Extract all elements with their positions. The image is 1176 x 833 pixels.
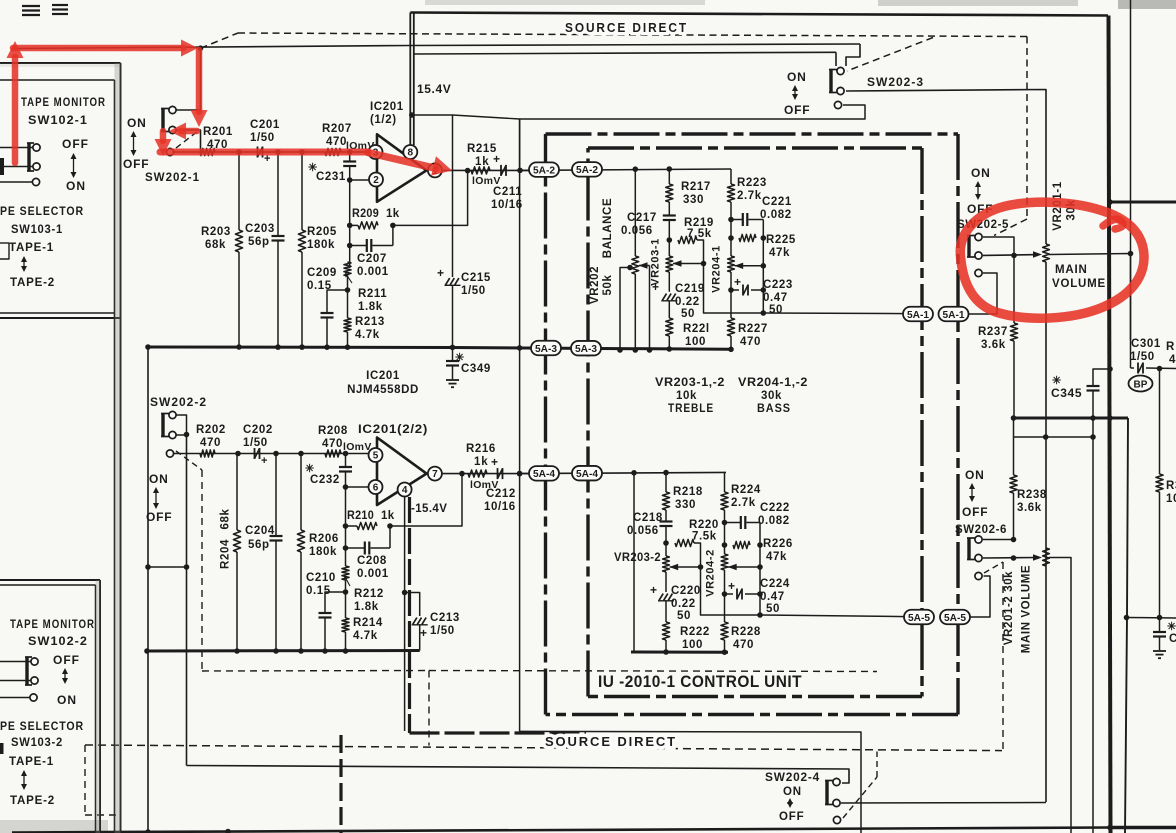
red arrowhead down (into switch)	[191, 110, 208, 127]
wire pin7 output	[442, 473, 533, 475]
potentiometer VR204-1	[728, 220, 735, 291]
svg-text:2.7k: 2.7k	[731, 497, 756, 509]
label C301 value	[1130, 351, 1155, 363]
node bus tone2 right	[722, 649, 728, 655]
svg-text:TAPE-1: TAPE-1	[9, 240, 54, 254]
frame right heavy vertical	[1109, 16, 1111, 833]
label R216	[466, 443, 496, 455]
node R210/C208 right	[387, 523, 393, 529]
label C202	[243, 424, 273, 436]
arrow TAPE-1/TAPE-2 (lower)	[21, 770, 27, 790]
wiper VR201-1	[1033, 251, 1042, 257]
svg-text:SW202-1: SW202-1	[145, 170, 200, 184]
label SW202-3	[867, 75, 924, 89]
svg-text:R217: R217	[681, 181, 711, 193]
wire R211 to R213	[347, 276, 349, 318]
svg-text:1/50: 1/50	[250, 132, 275, 144]
lower tape-unit box inner border	[0, 585, 96, 833]
svg-text:ON: ON	[149, 472, 169, 486]
label VR201-2 30k (rotated)	[1003, 571, 1015, 645]
wiper VR204-2	[728, 564, 760, 570]
node R201/C201	[236, 149, 242, 155]
node top feed / SW202-1 tap	[198, 45, 204, 51]
switch SW102-2	[25, 657, 38, 685]
svg-text:3.6k: 3.6k	[1017, 502, 1042, 514]
capacitor C207	[350, 225, 393, 252]
svg-text:C213: C213	[430, 612, 460, 624]
svg-text:8: 8	[408, 148, 414, 159]
resistor R221	[666, 318, 673, 349]
svg-text:NJM4558DD: NJM4558DD	[347, 384, 419, 396]
svg-text:5A-2: 5A-2	[576, 165, 598, 176]
svg-text:+: +	[261, 455, 268, 467]
node y437 tap	[1043, 434, 1049, 440]
capacitor C220	[650, 583, 674, 622]
label C219 value	[675, 296, 700, 320]
label OFF (SW202-6)	[962, 505, 988, 519]
wire right exit y202	[1110, 201, 1176, 204]
capacitor C232	[339, 454, 352, 488]
upper tape-unit box inner border	[0, 80, 115, 833]
label ON (SW202-3)	[787, 70, 807, 84]
node R205 top	[299, 149, 305, 155]
svg-text:R203: R203	[201, 226, 231, 238]
label C349	[461, 363, 491, 375]
svg-text:0.082: 0.082	[760, 209, 792, 221]
svg-text:7.5k: 7.5k	[687, 228, 712, 240]
svg-text:1.8k: 1.8k	[358, 301, 383, 313]
wire 5A-5 to SW202-6	[970, 576, 990, 617]
svg-text:0.001: 0.001	[357, 266, 389, 278]
label R216 value	[474, 456, 488, 468]
label C231	[316, 171, 346, 183]
resistor R222	[662, 622, 669, 652]
resistor R210	[357, 522, 377, 529]
switch SW202-5	[967, 233, 982, 259]
wire inverting node vertical ch2	[345, 487, 347, 566]
svg-text:SW202-4: SW202-4	[765, 770, 820, 784]
wire mid heavy	[1014, 417, 1129, 420]
label R212 value	[354, 601, 379, 613]
label R205	[307, 226, 337, 238]
label C202 value	[243, 437, 268, 449]
svg-text:+: +	[650, 583, 658, 597]
svg-text:C223: C223	[763, 279, 793, 291]
label R218 value	[675, 499, 696, 511]
resistor R226	[733, 541, 750, 548]
svg-text:OFF: OFF	[53, 653, 80, 667]
wire SW202-3 top feed	[846, 44, 860, 66]
label VR203-1,-2	[655, 377, 725, 389]
svg-text:R223: R223	[737, 177, 767, 189]
svg-text:0.15: 0.15	[306, 585, 331, 597]
capacitor C211	[501, 165, 506, 176]
wire feedback down ch2	[390, 474, 462, 526]
label MAIN VOLUME (rotated)	[1021, 565, 1033, 653]
label C208	[357, 555, 387, 567]
wire SW102-1 throw	[0, 181, 32, 183]
wire common thin vertical	[519, 119, 521, 731]
svg-text:R202: R202	[196, 424, 226, 436]
label SOURCE DIRECT (bottom)	[545, 735, 677, 749]
node output/feedback	[465, 168, 471, 174]
connector 5A-1 b	[939, 307, 969, 322]
svg-text:IC201: IC201	[370, 101, 404, 113]
label R210 1k	[347, 510, 395, 522]
resistor R224	[721, 472, 728, 522]
svg-text:PE SELECTOR: PE SELECTOR	[0, 204, 84, 218]
node main volume wiper join	[1128, 251, 1134, 257]
wiper VR204-1	[734, 263, 763, 269]
label R225 value	[769, 247, 790, 259]
node VR204-1 wiper join	[761, 263, 767, 269]
svg-text:4: 4	[1169, 354, 1176, 366]
svg-text:R208: R208	[318, 425, 348, 437]
label R228	[731, 626, 761, 638]
node y617 left	[1124, 615, 1130, 621]
switch SW102-1	[27, 143, 40, 171]
resistor R220	[675, 539, 694, 546]
node bus2 left end	[144, 648, 150, 654]
label SW202-6	[955, 522, 1007, 536]
label VR201-1 (rotated)	[1052, 181, 1064, 231]
wire tone2 input drop	[633, 473, 635, 652]
svg-text:SW102-2: SW102-2	[28, 634, 88, 648]
label R237	[978, 326, 1008, 338]
wire SW102-1 top contact	[0, 147, 33, 149]
node bus1 VR202 pot	[633, 347, 639, 353]
svg-text:0.47: 0.47	[760, 591, 785, 603]
wire pin2	[350, 179, 369, 181]
svg-text:10k: 10k	[676, 390, 697, 402]
svg-text:6: 6	[373, 483, 379, 494]
capacitor C213	[412, 618, 428, 651]
resistor R237	[1010, 255, 1017, 418]
label R220	[689, 519, 719, 531]
lower tape-unit box outer border	[0, 580, 100, 833]
svg-text:3.6k: 3.6k	[981, 339, 1006, 351]
capacitor C204	[270, 454, 283, 652]
op-amp IC201 1/2 triangle	[377, 134, 427, 202]
pin 7 IC201	[428, 467, 442, 481]
wire SW202-1 top contact to feed	[176, 48, 201, 110]
label R218	[673, 486, 703, 498]
red arrowhead down (to signal)	[155, 139, 172, 156]
node VR202 low	[627, 265, 633, 271]
svg-text:OFF: OFF	[962, 505, 988, 519]
capacitor C218	[660, 522, 673, 544]
wire C345 branch	[1093, 369, 1110, 386]
resistor R207	[325, 148, 341, 155]
red trace channel-1 signal	[160, 149, 368, 156]
label SW102-2	[28, 634, 88, 648]
wire C215 leg	[452, 115, 454, 277]
registration marks top-left	[22, 5, 68, 15]
svg-text:R222: R222	[680, 626, 710, 638]
label R206 value	[309, 546, 337, 558]
label 10mV (ch1 in)	[346, 140, 375, 152]
wire source-direct bypass line	[520, 105, 865, 171]
resistor R228	[721, 594, 728, 652]
resistor R211	[344, 262, 351, 276]
label C209	[307, 267, 337, 279]
selector stub fragment upper	[0, 243, 9, 259]
switch SW202-6	[967, 536, 982, 562]
label C345	[1051, 386, 1082, 400]
label R214 value	[353, 630, 378, 642]
svg-text:TAPE-2: TAPE-2	[10, 275, 55, 289]
connector 5A-1 a	[903, 307, 933, 322]
resistor R206	[297, 454, 304, 652]
label R208 value	[322, 438, 343, 450]
svg-text:R228: R228	[731, 626, 761, 638]
throw contact SW202-1	[166, 148, 173, 155]
label R209 1k	[352, 208, 400, 220]
svg-text:1k: 1k	[381, 510, 395, 522]
throw contact SW202-5	[975, 269, 982, 276]
label C215	[461, 272, 491, 284]
svg-text:R201: R201	[203, 126, 233, 138]
label OFF (SW202-4)	[779, 811, 804, 823]
connector 5A-3 b	[571, 341, 601, 356]
svg-text:1k: 1k	[386, 208, 400, 220]
svg-text:BP: BP	[1134, 380, 1148, 391]
dashed vertical to SW202-5	[1026, 37, 1028, 220]
dashed diagonal to SW202-5	[994, 219, 1027, 236]
wiper VR203-1	[673, 260, 704, 266]
label R237 value	[981, 339, 1006, 351]
wire right exit y617	[1127, 617, 1176, 620]
scan smudge top edge	[425, 0, 705, 5]
node bus2 R214	[343, 648, 349, 654]
label -15.4V	[411, 503, 447, 515]
asterisk C345	[1052, 375, 1062, 387]
svg-text:R211: R211	[358, 288, 387, 300]
label C217 value	[621, 225, 653, 237]
label OFF (SW202-2)	[146, 510, 172, 524]
node bus1 VR202 a	[617, 347, 623, 353]
capacitor C210	[319, 613, 332, 651]
svg-text:R213: R213	[355, 316, 385, 328]
wire switch column vertical	[186, 435, 188, 766]
label C211	[493, 186, 522, 198]
node +15.4V / C215 tap	[409, 112, 415, 118]
svg-text:SW202-3: SW202-3	[867, 75, 924, 89]
throw contact SW102-1	[32, 178, 39, 185]
label C207	[357, 253, 387, 265]
capacitor C222	[725, 516, 761, 529]
dashed throw SW202-1	[176, 131, 198, 148]
svg-text:C345: C345	[1051, 386, 1082, 400]
svg-text:C: C	[1169, 633, 1176, 645]
svg-text:OFF: OFF	[146, 510, 172, 524]
label BASS	[757, 403, 791, 415]
svg-text:C211: C211	[493, 186, 522, 198]
label SW202-5	[957, 217, 1009, 231]
capacitor C-partial	[1153, 618, 1166, 651]
label C201	[250, 119, 280, 131]
node 5A-4 tap1	[631, 470, 637, 476]
label C207 value	[357, 266, 389, 278]
svg-text:R225: R225	[766, 234, 796, 246]
svg-text:5A-4: 5A-4	[533, 469, 555, 480]
label ON (SW202-5)	[971, 166, 991, 180]
label ON (SW202-2)	[149, 472, 169, 486]
label ON (SW202-6)	[965, 468, 985, 482]
wire SW102-1 bottom contact	[0, 166, 33, 168]
wire VR202 lower contact	[620, 268, 630, 351]
arrow OFF/ON (SW102-1)	[71, 153, 77, 178]
wire tone out to 5A-1	[763, 312, 905, 315]
svg-text:0.001: 0.001	[357, 568, 389, 580]
node R225 left	[728, 235, 734, 241]
svg-text:C222: C222	[760, 502, 790, 514]
label SW103-1	[11, 222, 63, 236]
contact SW202-3 OFF	[834, 101, 841, 108]
label VR204 30k	[761, 390, 782, 402]
svg-text:15.4V: 15.4V	[417, 82, 451, 96]
label R238	[1017, 489, 1047, 501]
label R223 value	[737, 190, 762, 202]
node SW202-6 join	[1011, 555, 1017, 561]
label VR203-2	[614, 552, 661, 564]
svg-text:50: 50	[677, 610, 691, 622]
label R225	[766, 234, 796, 246]
resistor R201	[200, 148, 215, 155]
connector stub lower box	[0, 743, 4, 754]
potentiometer VR201-2	[1043, 548, 1050, 566]
label R223	[737, 177, 767, 189]
label R203	[201, 226, 231, 238]
wire tone2 out to 5A-5	[760, 615, 906, 617]
dashed bottom run right	[429, 671, 877, 672]
svg-text:2: 2	[373, 175, 379, 186]
resistor R227	[727, 290, 734, 349]
label SOURCE DIRECT (top)	[565, 21, 688, 35]
label C218 value	[627, 525, 659, 537]
svg-text:✳: ✳	[305, 463, 315, 475]
label TREBLE	[668, 403, 714, 415]
node right exit	[1107, 199, 1113, 205]
svg-text:1.8k: 1.8k	[354, 601, 379, 613]
node common 5A-4	[517, 471, 523, 477]
label OFF (SW102-1)	[62, 137, 89, 151]
node bus1 left end	[145, 344, 151, 350]
wire x1093 lower	[1092, 418, 1094, 833]
label R215	[467, 143, 497, 155]
svg-text:10/16: 10/16	[491, 199, 523, 211]
label 10mV (ch2 out)	[470, 479, 499, 491]
svg-text:SW103-2: SW103-2	[11, 735, 63, 749]
pin 2 IC201	[369, 173, 383, 187]
resistor R212	[342, 566, 349, 580]
label C-partial	[1169, 633, 1176, 645]
pointer C209 label	[345, 273, 352, 284]
throw contact SW202-6	[975, 572, 982, 579]
node R226 right	[757, 542, 763, 548]
pin 6 IC201	[369, 480, 383, 494]
svg-text:VR203-1: VR203-1	[650, 238, 662, 286]
label R221	[683, 323, 710, 335]
dashed throw SW202-2	[176, 451, 202, 470]
svg-text:1k: 1k	[474, 456, 488, 468]
svg-text:R206: R206	[309, 533, 339, 545]
dashed source-direct bottom run	[85, 745, 1002, 751]
label R222	[680, 626, 710, 638]
svg-text:1/50: 1/50	[461, 285, 486, 297]
throw contact SW202-2	[166, 450, 173, 457]
pin 5 IC201	[369, 448, 383, 462]
svg-text:7: 7	[432, 469, 438, 480]
svg-text:10: 10	[1166, 493, 1176, 505]
svg-text:10/16: 10/16	[484, 501, 516, 513]
wire long bottom run	[187, 766, 850, 784]
node bus1 common line	[517, 345, 523, 351]
resistor R225	[739, 234, 756, 241]
svg-text:R: R	[1166, 341, 1175, 353]
label C219	[675, 283, 705, 295]
shield box outer (control unit)	[546, 134, 959, 715]
label OFF (SW202-3)	[784, 103, 810, 117]
svg-text:50: 50	[766, 603, 780, 615]
switch SW202-2	[161, 411, 176, 438]
svg-text:R224: R224	[731, 484, 761, 496]
svg-text:R227: R227	[738, 323, 768, 335]
ground below C349	[446, 380, 459, 387]
label R204 68k (rotated)	[220, 509, 232, 569]
plus C215	[437, 266, 445, 280]
dashed bottom-left leg	[85, 745, 118, 815]
dashed SW202-2 bottom run	[202, 670, 429, 673]
label ON (SW202-4)	[783, 786, 802, 798]
red arrowhead output	[431, 156, 452, 175]
wire treble2 out vertical	[701, 567, 761, 615]
svg-text:ON: ON	[57, 693, 77, 707]
wire y437 link	[1014, 436, 1094, 438]
resistor R209	[358, 222, 378, 229]
node C224 left	[722, 591, 728, 597]
svg-text:+: +	[652, 280, 660, 294]
svg-text:C203: C203	[245, 223, 275, 235]
wire +15.4V supply rail	[410, 13, 414, 146]
svg-text:470: 470	[200, 437, 221, 449]
label R3 partial	[1166, 480, 1176, 505]
svg-text:lOmV: lOmV	[343, 441, 372, 453]
node bus1 R213	[345, 344, 351, 350]
resistor R205	[298, 152, 305, 347]
connector 5A-2 b	[572, 162, 602, 177]
svg-text:BASS: BASS	[757, 403, 791, 415]
node bus2 R204	[234, 648, 240, 654]
pin 8 IC201	[403, 145, 417, 159]
svg-text:5A-3: 5A-3	[575, 344, 597, 355]
svg-text:IU -2010-1 CONTROL UNIT: IU -2010-1 CONTROL UNIT	[598, 673, 802, 691]
svg-text:SW202-6: SW202-6	[955, 522, 1007, 536]
svg-text:4.7k: 4.7k	[353, 630, 378, 642]
label C215 value	[461, 285, 486, 297]
red trace step down	[160, 131, 167, 141]
svg-text:SOURCE DIRECT: SOURCE DIRECT	[545, 735, 677, 749]
svg-text:0.056: 0.056	[627, 525, 659, 537]
svg-text:47k: 47k	[769, 247, 790, 259]
label R212	[354, 588, 384, 600]
svg-text:VR204-1,-2: VR204-1,-2	[738, 377, 808, 389]
svg-text:SOURCE DIRECT: SOURCE DIRECT	[565, 21, 688, 35]
svg-text:SW202-2: SW202-2	[150, 395, 207, 409]
wire bottom edge run	[12, 828, 1110, 833]
svg-text:C231: C231	[316, 171, 346, 183]
wire R214 to bus	[345, 632, 347, 651]
